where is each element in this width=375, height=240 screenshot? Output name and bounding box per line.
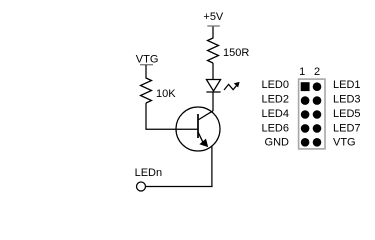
connector J1 pin 10 (313, 138, 322, 147)
wire LED cathode to Q1 collector (212, 92, 214, 111)
transistor Q1 base bar (197, 114, 199, 138)
connector J1 body (299, 79, 325, 149)
svg-text:2: 2 (314, 66, 320, 78)
svg-text:LED2: LED2 (261, 93, 289, 105)
wire R 150R to LED anode (212, 63, 214, 80)
svg-text:+5V: +5V (203, 11, 224, 23)
svg-text:150R: 150R (223, 47, 249, 59)
LED D1 triangle (206, 80, 220, 92)
svg-text:LED6: LED6 (261, 122, 289, 134)
svg-text:LED0: LED0 (261, 79, 289, 91)
svg-text:VTG: VTG (333, 137, 356, 149)
transistor Q1 circle (176, 107, 220, 151)
connector J1 pin 4 (313, 96, 322, 105)
svg-text:LED4: LED4 (261, 108, 289, 120)
connector J1 pin 6 (313, 110, 322, 119)
resistor 10K (141, 78, 152, 103)
svg-text:LEDn: LEDn (135, 167, 163, 179)
svg-text:VTG: VTG (136, 53, 159, 65)
connector J1 pin 1 square (301, 82, 310, 91)
wire emitter to LEDn terminal (146, 186, 213, 188)
LED D1 light emission arrow (224, 82, 240, 90)
connector J1 pin 5 (301, 110, 310, 119)
svg-text:LED7: LED7 (333, 122, 361, 134)
svg-text:LED1: LED1 (333, 79, 361, 91)
svg-text:1: 1 (299, 66, 305, 78)
svg-text:GND: GND (265, 137, 290, 149)
svg-text:LED3: LED3 (333, 93, 361, 105)
wire R 10K to Q1 base (146, 103, 198, 129)
transistor Q1 emitter arrowhead (199, 139, 208, 148)
connector J1 pin 7 (301, 124, 310, 133)
transistor Q1 collector stroke (198, 111, 213, 120)
svg-text:LED5: LED5 (333, 108, 361, 120)
node VTG terminal tick (140, 64, 153, 66)
connector J1 pin 8 (313, 124, 322, 133)
LED D1 cathode bar (206, 91, 220, 93)
connector J1 pin 9 (301, 138, 310, 147)
node LEDn terminal circle (137, 182, 146, 191)
transistor Q1 emitter stroke (198, 132, 205, 146)
wire VTG to R 10K (145, 65, 147, 79)
node +5V terminal tick (207, 25, 220, 27)
connector J1 pin 3 (301, 96, 310, 105)
connector J1 pin 2 (313, 82, 322, 91)
svg-text:10K: 10K (156, 88, 176, 100)
wire Q1 emitter down (211, 146, 213, 187)
resistor 150R (208, 38, 219, 63)
wire +5V to R 150R (212, 27, 214, 39)
